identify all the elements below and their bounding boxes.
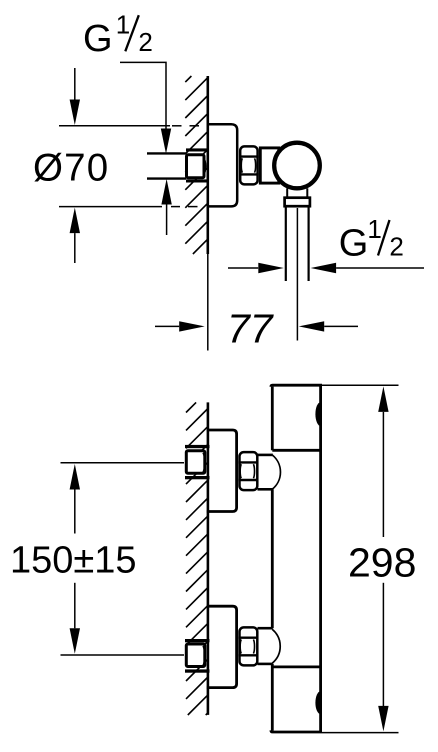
outlet centre line / extension to 77 dimension xyxy=(296,208,298,341)
150±15 upper arrow (pointing up) xyxy=(70,464,80,490)
body bottom cap separation line xyxy=(272,666,320,669)
lower union hex nut (bottom view) xyxy=(238,627,258,665)
svg-text:77: 77 xyxy=(227,305,275,351)
svg-text:G: G xyxy=(83,18,113,60)
298 lower arrow (pointing down) xyxy=(382,583,384,706)
connector piece between nut and valve body (top view) xyxy=(260,148,279,183)
svg-text:1: 1 xyxy=(116,10,130,40)
outlet collar xyxy=(285,198,310,207)
outlet neck below circle xyxy=(286,188,288,198)
svg-text:G: G xyxy=(339,222,369,264)
298 upper arrow (pointing up) xyxy=(378,386,388,412)
dimension 298 extension lines xyxy=(322,384,399,386)
150±15 lower arrow (pointing down) xyxy=(74,583,76,629)
S-union square socket (top view) xyxy=(187,155,205,178)
leader arrow down to inlet pipe top xyxy=(161,129,171,154)
union hex nut (top view) xyxy=(239,146,259,184)
valve body circle (top view) xyxy=(274,143,320,189)
lower escutcheon flange xyxy=(207,606,237,687)
dimension G 1/2 (outlet) arrows xyxy=(228,267,258,269)
body top cap separation line xyxy=(272,449,320,452)
lower S-union square socket xyxy=(186,644,205,667)
upper ball joint bulge xyxy=(258,455,281,489)
dimension text G 1/2 (outlet) xyxy=(339,214,404,264)
inlet pipe stub lines (top view) xyxy=(147,152,186,154)
svg-text:1: 1 xyxy=(367,214,381,244)
thermostat body outline xyxy=(271,385,321,732)
lower ball joint bulge xyxy=(258,628,281,664)
upper escutcheon flange xyxy=(207,430,237,512)
upper port crescent on body right edge xyxy=(315,402,320,426)
arrow up to inlet pipe bottom xyxy=(161,179,171,205)
lower S-union shoulders xyxy=(185,639,210,642)
S-union shoulders in wall (top view) xyxy=(186,148,209,151)
svg-text:2: 2 xyxy=(389,231,403,261)
dimension 77 xyxy=(155,325,179,327)
upper S-union square socket xyxy=(186,451,205,474)
dimension Ø70 extension line bottom xyxy=(59,206,162,208)
svg-text:Ø70: Ø70 xyxy=(33,146,109,189)
svg-text:298: 298 xyxy=(348,540,416,586)
upper S-union shoulders xyxy=(185,445,210,448)
dimension 150±15 extension lines xyxy=(61,462,185,464)
outlet pipe (G 1/2 shower outlet) xyxy=(285,206,287,281)
wall hatching (bottom view) xyxy=(186,402,196,412)
Ø70 upper arrow (pointing down) xyxy=(74,68,76,100)
upper union hex nut (bottom view) xyxy=(238,452,258,490)
Ø70 lower arrow (pointing up) xyxy=(70,208,80,234)
wall face line (top view) xyxy=(207,76,210,254)
dimension Ø70 extension line top xyxy=(59,125,170,127)
lower port crescent on body right edge xyxy=(315,691,320,714)
wall face line (bottom view) xyxy=(207,402,210,715)
leader line from G 1/2 text xyxy=(120,62,166,129)
svg-text:150±15: 150±15 xyxy=(10,540,137,582)
svg-text:2: 2 xyxy=(138,27,152,57)
dimension text G 1/2 (top, inlet thread) xyxy=(83,10,153,61)
wall hatching (top view) xyxy=(185,76,208,254)
wall face extension line down to 77 dimension xyxy=(207,254,209,351)
escutcheon flange (top view) xyxy=(207,124,238,206)
